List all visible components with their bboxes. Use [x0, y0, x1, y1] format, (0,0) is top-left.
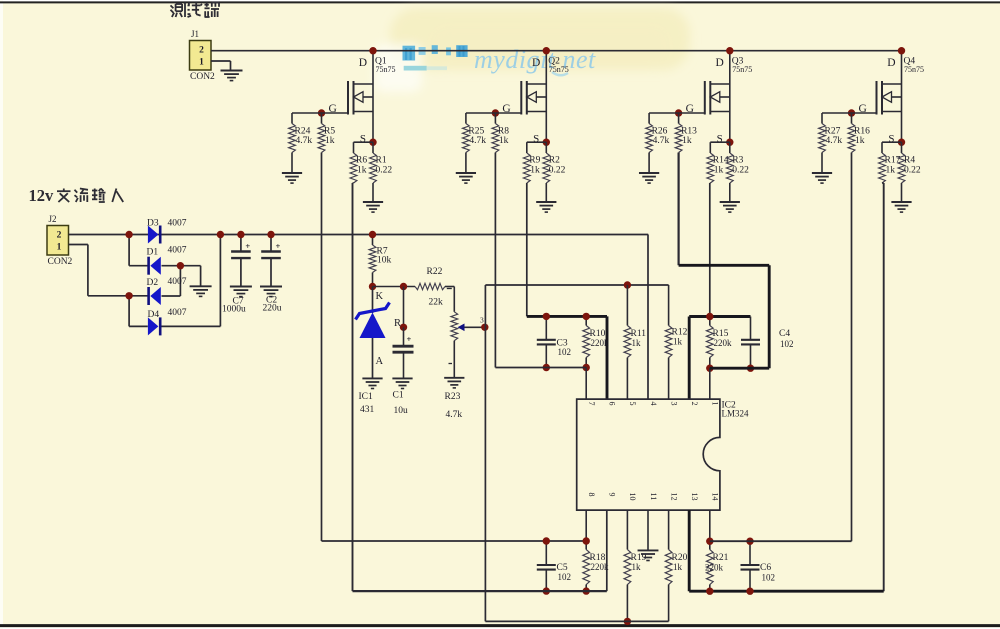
svg-text:6: 6: [608, 402, 617, 406]
resistor R11 1k: [626, 285, 628, 326]
ground (R26): [639, 172, 659, 174]
svg-text:3: 3: [480, 316, 484, 325]
potentiometer R23 4.7k: [451, 312, 458, 341]
svg-text:0.22: 0.22: [732, 166, 749, 176]
ground (C1): [392, 377, 412, 379]
svg-text:IC1: IC1: [359, 392, 374, 402]
svg-text:R17: R17: [885, 156, 901, 166]
wire bottom ref row y=621: [485, 620, 668, 622]
wire Q2 gate row: [466, 112, 521, 114]
resistor R25 4.7k: [463, 124, 470, 153]
capacitor C7 1000u: [240, 235, 242, 252]
node C6 top: [746, 538, 753, 545]
op-amp IC2 LM324: [577, 399, 720, 510]
svg-text:3: 3: [669, 402, 678, 406]
svg-text:12: 12: [669, 493, 678, 501]
svg-text:102: 102: [558, 572, 572, 582]
svg-text:102: 102: [762, 573, 776, 583]
svg-text:4.7k: 4.7k: [826, 136, 843, 146]
wire AC1 down to D1: [128, 235, 130, 266]
wire Q1 source row: [354, 141, 374, 143]
wire J1 pin1 to ground: [211, 60, 231, 62]
svg-text:R25: R25: [468, 127, 484, 137]
svg-text:0.22: 0.22: [549, 166, 566, 176]
svg-text:+: +: [245, 241, 250, 251]
node Q2 drain: [543, 47, 550, 54]
svg-text:R6: R6: [356, 156, 367, 166]
top rail wire: [373, 50, 902, 52]
svg-text:102: 102: [780, 339, 794, 349]
wire Q3 source row: [710, 141, 730, 143]
top border line: [0, 1, 1000, 3]
node R21 bottom: [706, 588, 713, 595]
ground (J1): [221, 70, 243, 72]
svg-text:4007: 4007: [168, 219, 187, 229]
node Q1 drain: [369, 47, 376, 54]
wire R10 bottom to pin7: [585, 368, 587, 400]
node R15 top: [706, 313, 713, 320]
wire R13 thick loop to C4: [679, 264, 770, 267]
wire R14 bus lead: [709, 182, 712, 184]
node R19 bottom: [624, 618, 631, 625]
resistor R8 1k (gate drive): [494, 113, 496, 124]
diode D3 4007: [148, 226, 159, 244]
svg-text:CON2: CON2: [48, 257, 73, 267]
svg-text:220u: 220u: [263, 304, 282, 314]
svg-text:D: D: [887, 57, 895, 69]
svg-text:12v: 12v: [29, 186, 55, 205]
svg-text:R22: R22: [427, 267, 443, 277]
transistor Q4 75n75 (MOSFET): [901, 51, 903, 143]
node R (TL431 ref): [400, 324, 407, 331]
wire down to R ref: [403, 287, 405, 328]
svg-text:2: 2: [199, 46, 204, 56]
title 交流输入: [63, 189, 65, 191]
svg-text:A: A: [376, 356, 384, 367]
svg-text:1k: 1k: [632, 338, 642, 348]
ground (R25): [456, 172, 476, 174]
node R18 top: [583, 537, 590, 544]
node Q1 gate: [318, 109, 325, 116]
node C3 top: [543, 313, 550, 320]
bottom border line: [0, 624, 1000, 627]
node Q1 source: [369, 139, 376, 146]
svg-text:431: 431: [360, 405, 375, 415]
wire D4 cathode up to rail: [162, 325, 221, 327]
svg-text:D2: D2: [147, 278, 159, 288]
svg-text:0.22: 0.22: [904, 166, 921, 176]
wire R5 bus bottom row y=541: [322, 540, 587, 542]
svg-text:R21: R21: [713, 553, 729, 563]
node pot wiper: [481, 324, 488, 331]
resistor R5 1k (gate drive): [321, 113, 323, 124]
svg-text:1k: 1k: [673, 337, 683, 347]
transistor Q1 75n75 (MOSFET): [372, 51, 374, 143]
node C5 top: [543, 537, 550, 544]
resistor R13 1k (gate drive): [678, 113, 680, 124]
transistor Q3 75n75 (MOSFET): [729, 51, 731, 143]
svg-text:2: 2: [57, 231, 62, 241]
svg-text:1k: 1k: [325, 136, 335, 146]
wire pin13 thick down: [688, 510, 691, 591]
resistor R2 0.22 (shunt): [545, 142, 547, 153]
svg-text:220k: 220k: [705, 563, 724, 573]
resistor R27 4.7k: [819, 124, 826, 153]
wire R5 gate bus down: [321, 153, 323, 542]
resistor R19 1k: [626, 510, 628, 549]
resistor R16 1k (gate drive): [851, 113, 853, 124]
svg-text:75n75: 75n75: [904, 65, 924, 74]
resistor R18 220k: [585, 510, 587, 549]
resistor R15 220k: [709, 317, 711, 326]
ground (R24): [282, 172, 302, 174]
node Q3 source: [726, 139, 733, 146]
svg-text:S: S: [533, 133, 539, 145]
svg-text:10k: 10k: [377, 256, 392, 266]
svg-text:220k: 220k: [591, 338, 610, 348]
svg-text:75n75: 75n75: [549, 65, 569, 74]
node R10 top: [583, 313, 590, 320]
svg-text:D4: D4: [148, 310, 160, 320]
wire Q4 source row: [882, 141, 902, 143]
svg-text:1: 1: [199, 58, 204, 68]
resistor R12 1k: [668, 285, 670, 326]
node C3 bottom: [543, 364, 550, 371]
svg-text:1: 1: [57, 243, 62, 253]
node C5 bottom: [543, 587, 550, 594]
wire bottom row y=591 right thick: [689, 590, 884, 593]
svg-text:9: 9: [608, 493, 617, 497]
svg-text:4007: 4007: [168, 277, 187, 287]
node Q2 source: [543, 139, 550, 146]
wire sense row thick (pin6): [527, 315, 607, 318]
wire R22 to pot: [445, 286, 454, 288]
wire R17 bus lead: [882, 182, 884, 184]
node D4 riser: [217, 231, 224, 238]
resistor R24 4.7k: [289, 124, 296, 153]
resistor R4 0.22 (shunt): [901, 142, 903, 153]
title 测试端: [171, 5, 174, 8]
svg-text:D1: D1: [147, 248, 159, 258]
svg-text:1k: 1k: [714, 166, 724, 176]
diode D4 4007: [148, 317, 159, 335]
wire top row y=541 right: [710, 540, 852, 542]
connector J1: [190, 41, 212, 71]
node Q3 drain: [726, 47, 733, 54]
wire D1/D2 anodes to ground node: [162, 265, 201, 267]
wire R6 sense bus down: [352, 183, 354, 591]
svg-text:D: D: [532, 57, 540, 69]
svg-text:4.7k: 4.7k: [653, 136, 670, 146]
wire rail to pin4: [647, 235, 649, 400]
transistor Q2 75n75 (MOSFET): [545, 51, 547, 143]
svg-text:+: +: [407, 334, 412, 344]
pot wiper arrow: [463, 326, 485, 328]
resistor R17 1k (sense): [879, 153, 886, 183]
capacitor C3 102: [545, 316, 547, 339]
svg-text:1k: 1k: [682, 136, 692, 146]
svg-text:1k: 1k: [530, 166, 540, 176]
wire pin2 thick loop: [688, 317, 691, 400]
node C6 bottom: [746, 588, 753, 595]
ground (IC1): [362, 377, 382, 379]
resistor R26 4.7k: [646, 124, 653, 153]
svg-text:75n75: 75n75: [376, 65, 396, 74]
wire R14 sense bus down: [709, 183, 711, 317]
node C4 bottom: [747, 365, 754, 372]
wire J2 pin1: [69, 244, 88, 246]
svg-text:R: R: [394, 318, 401, 329]
main +rail wire y=234: [129, 234, 648, 236]
wire R15/C4 bottom row thick: [710, 367, 769, 370]
svg-text:1k: 1k: [632, 562, 642, 572]
svg-text:13: 13: [690, 493, 699, 501]
zener IC1 431 (TL431): [372, 287, 374, 314]
capacitor C4 102: [750, 317, 752, 340]
wire pin11 ground: [647, 510, 649, 550]
ground (R27): [812, 172, 832, 174]
wire pin9 down: [606, 510, 608, 591]
node R18 bottom: [583, 587, 590, 594]
svg-text:CON2: CON2: [190, 72, 215, 82]
wire J1 pin2 to top rail: [211, 50, 373, 52]
wire R6 bus lead: [353, 182, 354, 184]
svg-text:11: 11: [649, 493, 658, 501]
svg-text:R1: R1: [376, 156, 387, 166]
svg-text:R8: R8: [498, 127, 509, 137]
svg-text:R13: R13: [681, 127, 697, 137]
svg-text:R23: R23: [445, 392, 461, 402]
svg-text:1k: 1k: [886, 166, 896, 176]
svg-text:R24: R24: [295, 127, 311, 137]
svg-text:4: 4: [649, 402, 658, 406]
node Q4 drain: [898, 47, 905, 54]
svg-text:J2: J2: [49, 214, 57, 224]
ground (R4): [891, 201, 911, 203]
capacitor C1 10u: [403, 327, 405, 345]
svg-text:K: K: [376, 291, 384, 302]
resistor R20 1k: [668, 510, 670, 549]
diode D2 4007: [147, 287, 150, 305]
svg-text:C4: C4: [779, 329, 790, 339]
svg-text:R14: R14: [713, 156, 729, 166]
svg-text:102: 102: [558, 347, 572, 357]
wire R16 gate bus down: [851, 153, 853, 542]
node K: [369, 283, 376, 290]
connector J2: [47, 226, 69, 256]
svg-text:D: D: [359, 57, 367, 69]
svg-text:10: 10: [628, 493, 637, 501]
wire R8 bus to C3 bottom row: [495, 367, 586, 369]
svg-text:C6: C6: [760, 563, 771, 573]
svg-text:4.7k: 4.7k: [296, 136, 313, 146]
capacitor C5 102: [545, 541, 547, 565]
svg-text:S: S: [888, 133, 894, 145]
resistor R22 22k: [415, 283, 445, 289]
svg-text:J1: J1: [191, 29, 199, 39]
wire bottom row y=591 left: [353, 590, 607, 592]
node R10 bottom: [583, 364, 590, 371]
svg-text:2: 2: [690, 402, 699, 406]
node AC2 low: [125, 292, 132, 299]
wire AC2 down to D4: [129, 295, 148, 297]
svg-text:5: 5: [628, 402, 637, 406]
wire Q4 gate row: [822, 112, 877, 114]
ground (pin11): [638, 549, 659, 551]
svg-text:220k: 220k: [714, 338, 733, 348]
node Q4 source: [898, 139, 905, 146]
resistor R7 10k: [372, 235, 374, 246]
svg-text:1k: 1k: [357, 166, 367, 176]
diode D1 4007: [147, 257, 150, 275]
node R11 top: [624, 281, 631, 288]
svg-text:C1: C1: [393, 391, 404, 401]
svg-text:LM324: LM324: [722, 409, 750, 419]
node R15 bottom: [706, 365, 713, 372]
node R7 top: [369, 231, 376, 238]
svg-text:75n75: 75n75: [732, 65, 752, 74]
svg-text:22k: 22k: [429, 298, 444, 308]
wire R8 gate bus down: [494, 153, 496, 368]
node AC1: [125, 231, 132, 238]
svg-text:1000u: 1000u: [222, 305, 246, 315]
svg-text:R2: R2: [549, 156, 560, 166]
resistor R3 0.22 (shunt): [729, 142, 731, 153]
svg-text:4007: 4007: [168, 308, 187, 318]
svg-text:R16: R16: [854, 127, 870, 137]
node R22 left: [400, 283, 407, 290]
resistor R9 1k (sense): [523, 153, 530, 183]
svg-text:1: 1: [711, 402, 720, 406]
resistor R14 1k (sense): [707, 153, 714, 183]
node Q4 gate: [848, 109, 855, 116]
wire wiper bus vertical: [484, 285, 486, 621]
wire Q3 gate row: [649, 112, 705, 114]
svg-text:1k: 1k: [499, 136, 509, 146]
node D1 anode junction: [177, 262, 184, 269]
resistor R21 220k: [709, 510, 711, 549]
resistor R6 1k (sense): [350, 153, 357, 183]
svg-text:R27: R27: [825, 127, 841, 137]
node Q3 gate: [675, 109, 682, 116]
wire R13 gate bus down: [677, 153, 679, 266]
ground (R2): [536, 201, 556, 203]
watermark pixel blocks: [403, 46, 416, 61]
wire Q2 source row: [527, 141, 547, 143]
ground (R1): [363, 201, 383, 203]
svg-text:D: D: [715, 57, 723, 69]
svg-text:D3: D3: [147, 219, 159, 229]
ground (bridge negative): [190, 285, 212, 287]
resistor R10 220k: [585, 316, 587, 325]
capacitor C2 220u: [270, 235, 272, 252]
ground (R23): [444, 377, 464, 379]
node Q2 gate: [492, 109, 499, 116]
svg-text:1k: 1k: [673, 562, 683, 572]
svg-text:4.7k: 4.7k: [469, 136, 486, 146]
svg-text:S: S: [360, 133, 366, 145]
svg-text:R5: R5: [324, 127, 335, 137]
svg-text:R3: R3: [732, 156, 743, 166]
capacitor C6 102: [749, 541, 751, 565]
svg-text:14: 14: [711, 493, 720, 501]
node R21 top: [706, 538, 713, 545]
wire R15 bottom to pin1: [709, 368, 711, 399]
svg-text:4007: 4007: [168, 246, 187, 256]
svg-text:R9: R9: [529, 156, 540, 166]
wire R9 bus lead: [526, 182, 528, 184]
svg-text:R26: R26: [652, 127, 668, 137]
svg-text:0.22: 0.22: [376, 166, 393, 176]
svg-text:R4: R4: [904, 156, 915, 166]
wire J2 pin2: [69, 234, 130, 236]
resistor R1 0.22 (shunt): [372, 142, 374, 153]
svg-text:S: S: [717, 133, 723, 145]
wire Q1 gate row: [292, 112, 348, 114]
svg-text:10u: 10u: [394, 406, 409, 416]
wire K row: [373, 286, 416, 288]
svg-text:+: +: [276, 241, 281, 251]
svg-text:1k: 1k: [855, 136, 865, 146]
svg-text:4.7k: 4.7k: [446, 410, 463, 420]
wire R9 sense bus down: [526, 183, 528, 316]
wire R17 sense bus down: [883, 183, 885, 591]
ground (R3): [720, 201, 740, 203]
wire ref row y=285: [485, 284, 668, 286]
svg-text:8: 8: [587, 493, 596, 497]
svg-text:7: 7: [587, 402, 596, 406]
